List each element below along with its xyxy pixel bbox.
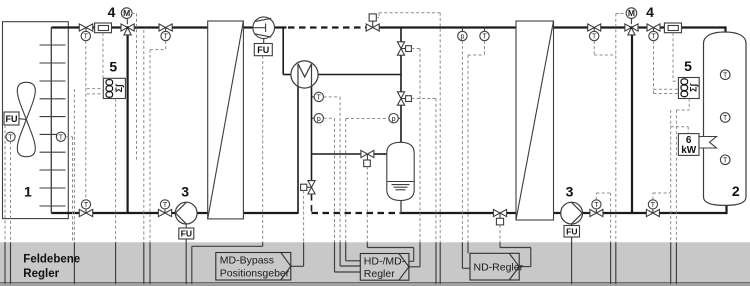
svg-text:T: T	[723, 157, 728, 164]
pump 3 right	[561, 184, 583, 237]
bypass valve vertical below pump	[301, 181, 316, 194]
svg-text:T: T	[163, 34, 168, 41]
air handling unit duct 1	[3, 22, 69, 219]
hand valve top middle	[366, 14, 379, 31]
FU fan drive	[19, 118, 26, 121]
wire T x653 to display right	[653, 41, 655, 89]
sensor p after pump	[312, 117, 315, 119]
field level wiring inside band	[5, 237, 676, 284]
storage tank 2	[704, 32, 747, 205]
wire display left down	[115, 99, 117, 243]
wire flow meter right to display	[672, 33, 674, 81]
energy meter display 5 left	[103, 59, 125, 99]
svg-text:FU: FU	[181, 229, 192, 239]
wire bottom control valve actuator	[499, 225, 501, 242]
svg-text:T: T	[723, 115, 728, 122]
shut-off valve with T x165	[159, 24, 172, 41]
shut-off valve top-left with T	[79, 24, 92, 41]
wire sensor T pump	[324, 96, 341, 98]
sensor T coil	[56, 132, 65, 141]
wire control valve 1 actuator	[411, 48, 420, 50]
svg-text:T: T	[317, 94, 322, 101]
svg-text:1: 1	[24, 183, 32, 199]
heat exchanger block left	[208, 21, 244, 219]
sensor T supply air	[6, 132, 15, 141]
svg-text:Regler: Regler	[23, 268, 59, 280]
controller box HD-/MD-Regler	[360, 254, 409, 281]
svg-text:T: T	[723, 72, 728, 79]
svg-text:Feldebene: Feldebene	[23, 254, 80, 266]
wire sensor p riser	[346, 118, 389, 120]
branch pipe to expansion vessel	[312, 153, 362, 155]
wire flow meter to display left	[102, 33, 104, 78]
shut-off valve with T x594	[588, 24, 601, 41]
wire T x594 jog down	[593, 41, 595, 55]
svg-text:MD-Bypass: MD-Bypass	[220, 255, 274, 267]
bottom return pipe segments	[51, 212, 79, 214]
wire T x653 bottom jog	[652, 193, 654, 200]
svg-text:2: 2	[732, 183, 740, 199]
svg-text:T: T	[59, 134, 64, 141]
wire T valve top-left down	[85, 41, 87, 200]
svg-text:T: T	[482, 34, 487, 41]
return valve with T x86	[79, 200, 92, 217]
coil feed pipe	[50, 28, 52, 214]
wire T coil to bus	[66, 136, 73, 138]
wire from motor M left	[132, 13, 137, 15]
svg-text:T: T	[163, 202, 168, 209]
return riser right	[631, 35, 633, 214]
pipe drop into storage tank	[724, 26, 726, 33]
svg-text:p: p	[317, 116, 321, 123]
svg-text:5: 5	[684, 58, 692, 74]
wire bypass valve actuator down	[303, 190, 305, 242]
fan blades	[17, 82, 35, 119]
svg-text:ND-Regler: ND-Regler	[474, 262, 524, 274]
sensor p middle riser	[398, 117, 401, 119]
heating coil column	[40, 45, 66, 206]
flow meter right	[664, 23, 681, 33]
svg-text:FU: FU	[6, 114, 18, 124]
svg-text:T: T	[651, 34, 656, 41]
motor M of 3-way valve 4 right	[626, 8, 637, 19]
energy meter display 5 right	[678, 58, 699, 98]
flow meter left	[95, 23, 112, 33]
return valve with T x165	[158, 200, 171, 217]
pump unit M middle	[283, 26, 401, 213]
svg-text:3: 3	[181, 184, 189, 200]
wire vessel branch valve actuator	[366, 167, 368, 243]
return valve with T x653	[646, 200, 659, 217]
wire T supply air down	[10, 141, 12, 242]
valve on vessel branch	[361, 150, 374, 166]
dashed pipe segment top	[288, 26, 366, 28]
controller box ND-Regler	[470, 253, 524, 280]
wires into meter display left	[87, 88, 104, 90]
wire hand valve actuator	[376, 17, 379, 19]
svg-text:4: 4	[108, 4, 116, 20]
control valve bottom x500	[493, 209, 506, 225]
heat exchanger block right	[516, 21, 554, 220]
svg-text:4: 4	[646, 4, 654, 20]
wire FU circulating pump down	[262, 56, 264, 243]
svg-text:T: T	[84, 34, 89, 41]
wire T x596 bottom jog down	[595, 193, 597, 200]
svg-text:p: p	[460, 34, 464, 41]
electric heater 6 kW	[678, 134, 716, 156]
svg-text:T: T	[594, 202, 599, 209]
expansion vessel	[387, 142, 414, 213]
svg-text:HD-/MD-: HD-/MD-	[364, 255, 406, 267]
wire pair down to band	[143, 30, 145, 242]
svg-text:T: T	[8, 134, 13, 141]
controller box MD-Bypass Positionsgeber	[216, 253, 291, 281]
top supply pipe segments	[51, 26, 79, 28]
bus strip bottom	[0, 283, 750, 286]
svg-text:p: p	[392, 116, 396, 123]
supply riser left	[126, 35, 128, 214]
control valve vertical 1	[397, 42, 411, 55]
sensor T top right pipe	[484, 28, 486, 32]
sensor p top right pipe	[461, 28, 463, 32]
svg-text:T: T	[84, 202, 89, 209]
wire x74 down	[73, 89, 75, 242]
svg-text:Regler: Regler	[364, 268, 395, 280]
shut-off valve with T x653	[647, 24, 660, 41]
svg-text:3: 3	[566, 184, 574, 200]
svg-text:FU: FU	[566, 227, 577, 237]
control valve vertical 2	[397, 92, 411, 105]
pump 3 left	[175, 184, 197, 239]
svg-text:FU: FU	[257, 45, 269, 55]
svg-text:M: M	[628, 8, 635, 18]
sensor T after pump	[312, 96, 315, 98]
FU of circulating pump	[263, 39, 265, 44]
svg-text:Positionsgeber: Positionsgeber	[220, 268, 290, 280]
wire sensor p pump	[324, 117, 335, 119]
wire heater 6kW	[671, 126, 689, 128]
wire sensor p right down	[461, 41, 463, 243]
dashed pipe segment bottom	[312, 212, 401, 214]
3-way mixing valve 4 right	[625, 24, 638, 35]
svg-text:M: M	[123, 8, 130, 18]
svg-text:kW: kW	[681, 145, 697, 156]
svg-text:T: T	[592, 34, 597, 41]
svg-text:5: 5	[109, 59, 117, 75]
circulating fan/pump circle	[253, 17, 275, 39]
motor M of 3-way valve 4 left	[121, 8, 132, 19]
middle riser pipe	[400, 28, 402, 43]
wire control valve 2 actuator	[411, 98, 436, 100]
tank bottom stub	[725, 203, 727, 215]
wire sensor T right down	[484, 41, 486, 55]
3-way mixing valve 4 left	[121, 24, 134, 35]
field-level controller band	[0, 242, 750, 286]
wire FU AHU down	[4, 125, 6, 242]
wire display right down	[688, 99, 690, 111]
return valve with T x596	[590, 200, 603, 217]
svg-text:T: T	[651, 202, 656, 209]
